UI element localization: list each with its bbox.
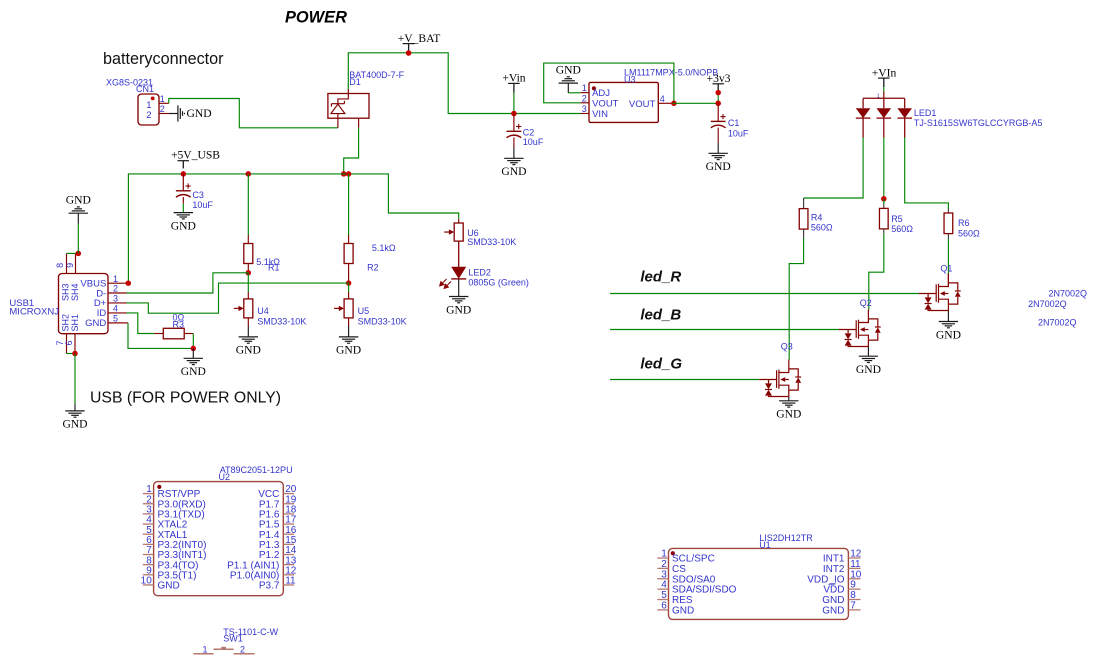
pin 4 SDA/SDI/SDO of U1 xyxy=(657,588,668,590)
svg-text:VDD_IO: VDD_IO xyxy=(807,574,844,585)
ground GND below Q2 xyxy=(867,347,869,356)
wire R5 to Q2 drain xyxy=(883,229,885,234)
pin anode stub of D1 xyxy=(337,118,339,128)
svg-text:11: 11 xyxy=(850,559,861,570)
switch contact of SW1 xyxy=(214,648,234,650)
ground GND below C1 xyxy=(717,128,719,143)
pin 2 D- of USB1 xyxy=(108,292,127,294)
svg-text:P3.7: P3.7 xyxy=(259,581,280,592)
svg-text:10uF: 10uF xyxy=(523,137,544,147)
svg-text:3: 3 xyxy=(582,104,587,114)
pin 6 GND of U1 xyxy=(657,609,668,611)
svg-text:R1: R1 xyxy=(268,263,280,273)
accelerometer U1 LIS2DH12TR xyxy=(669,548,849,619)
svg-text:R2: R2 xyxy=(367,263,379,273)
pin 5 XTAL1 of U2 xyxy=(143,533,154,535)
svg-text:10: 10 xyxy=(141,576,153,587)
junction R3/GND xyxy=(191,346,197,352)
svg-text:9: 9 xyxy=(65,263,75,268)
svg-text:batteryconnector: batteryconnector xyxy=(103,50,224,68)
ground GND below U5 xyxy=(348,318,350,326)
wire rail to R1 xyxy=(247,174,249,235)
svg-text:R6: R6 xyxy=(958,218,970,228)
wire node to U4 xyxy=(247,273,249,292)
svg-text:SW1: SW1 xyxy=(223,634,243,644)
pin 3 SDO/SA0 of U1 xyxy=(657,578,668,580)
pin 9 P3.5(T1) of U2 xyxy=(143,574,154,576)
wire led_B to Q2 gate xyxy=(610,329,839,331)
pin 4 VOUT of U3 xyxy=(658,102,672,104)
ground GND below U4 xyxy=(247,318,249,326)
svg-text:4: 4 xyxy=(661,580,667,591)
svg-text:INT1: INT1 xyxy=(823,554,845,565)
svg-text:SCL/SPC: SCL/SPC xyxy=(672,554,715,565)
wire rail to R2 xyxy=(348,174,350,235)
svg-text:led_G: led_G xyxy=(640,355,682,372)
svg-text:2: 2 xyxy=(113,284,118,294)
pin 4 XTAL2 of U2 xyxy=(143,523,154,525)
junction node D- / R1 / U4 xyxy=(246,270,252,276)
pin 15 P1.3 of U2 xyxy=(283,543,294,545)
ground GND below R3 xyxy=(192,348,194,358)
svg-text:2: 2 xyxy=(582,93,587,103)
pin 20 VCC of U2 xyxy=(283,493,294,495)
svg-text:GND: GND xyxy=(181,365,206,378)
svg-text:11: 11 xyxy=(285,576,296,587)
pin 2 VOUT of U3 xyxy=(581,102,589,104)
svg-text:5: 5 xyxy=(661,590,667,601)
wire led_G to Q3 gate xyxy=(610,379,759,381)
ground GND below Q1 xyxy=(947,311,949,322)
svg-text:10: 10 xyxy=(850,569,862,580)
svg-text:560Ω: 560Ω xyxy=(891,224,913,234)
svg-text:GND: GND xyxy=(776,408,801,421)
svg-text:SH3: SH3 xyxy=(60,284,70,302)
pin 11 P3.7 of U2 xyxy=(283,584,294,586)
junction node D+ / R2 / U5 xyxy=(346,280,352,286)
svg-text:2: 2 xyxy=(146,110,151,121)
pin 8 P3.4(TO) of U2 xyxy=(143,564,154,566)
svg-text:3: 3 xyxy=(661,569,667,580)
pin 1 VBUS of USB1 xyxy=(108,282,127,284)
pin top cathode stub of D1 xyxy=(347,89,349,94)
svg-text:2: 2 xyxy=(661,559,667,570)
LED LED2 0805G xyxy=(458,241,460,267)
svg-text:7: 7 xyxy=(850,601,856,612)
resistor R4 560 xyxy=(803,198,805,209)
wire VOUT to +3v3 xyxy=(672,102,718,104)
resistor R2 5.1k xyxy=(348,235,350,244)
pin 2 P3.0(RXD) of U2 xyxy=(143,503,154,505)
svg-text:VIN: VIN xyxy=(592,109,608,120)
pin 1 of SW1 xyxy=(194,653,214,655)
pin 18 P1.6 of U2 xyxy=(283,513,294,515)
pin SH3/SH4 shield top of USB1 xyxy=(66,253,68,273)
svg-text:Q2: Q2 xyxy=(860,298,872,308)
pin 4 ID of USB1 xyxy=(108,312,127,314)
pin 3 D+ of USB1 xyxy=(108,302,127,304)
pin 3 VIN of U3 xyxy=(581,113,589,115)
pin 9 VDD of U1 xyxy=(848,588,860,590)
svg-text:U1: U1 xyxy=(759,540,771,550)
svg-text:12: 12 xyxy=(850,549,862,560)
TVS U4 SMD33-10K xyxy=(244,299,253,318)
svg-text:2: 2 xyxy=(160,104,165,114)
transistor Q3 2N7002Q xyxy=(759,360,801,397)
svg-text:GND: GND xyxy=(822,595,844,606)
wire R4 to Q3 drain xyxy=(803,229,805,238)
pin 1 of CN1 xyxy=(159,102,169,104)
svg-text:LED1: LED1 xyxy=(914,108,937,118)
svg-text:GND: GND xyxy=(158,581,180,592)
svg-text:C1: C1 xyxy=(728,118,740,128)
pin 7 GND of U1 xyxy=(848,609,860,611)
svg-text:+3v3: +3v3 xyxy=(707,72,731,85)
resistor R6 560 xyxy=(947,209,949,214)
wire +V_BAT rail from D1 to VIN xyxy=(348,53,580,114)
svg-text:5.1kΩ: 5.1kΩ xyxy=(372,243,396,253)
power symbol +V_BAT xyxy=(408,44,410,53)
svg-text:GND: GND xyxy=(66,194,91,207)
svg-text:3: 3 xyxy=(113,294,118,304)
wire LED1 left to R4 xyxy=(804,138,864,199)
wire R6 to Q1 drain xyxy=(947,234,949,239)
svg-text:SMD33-10K: SMD33-10K xyxy=(257,317,306,327)
ground GND at CN1 pin 2 (rotated) xyxy=(169,113,178,115)
capacitor C3 10uF xyxy=(182,174,184,191)
svg-text:CS: CS xyxy=(672,564,686,575)
svg-text:MICROXNJ: MICROXNJ xyxy=(9,307,59,318)
svg-text:led_B: led_B xyxy=(640,306,681,323)
svg-text:GND: GND xyxy=(85,318,106,329)
connector CN1 XG8S-0231 xyxy=(138,94,159,125)
svg-text:C2: C2 xyxy=(523,127,535,137)
pin 2 of SW1 xyxy=(234,653,255,655)
transistor Q1 2N7002Q xyxy=(947,274,949,287)
svg-text:VDD: VDD xyxy=(823,585,844,596)
connector USB1 MICROXNJ xyxy=(59,274,109,334)
junction rail at C3 xyxy=(181,171,187,177)
svg-text:RES: RES xyxy=(672,595,693,606)
pin 11 INT2 of U1 xyxy=(848,567,860,569)
svg-text:U5: U5 xyxy=(358,306,370,316)
svg-text:1: 1 xyxy=(160,94,165,104)
pin 1 RST/VPP of U2 xyxy=(143,493,154,495)
svg-text:9: 9 xyxy=(850,580,856,591)
svg-text:USB (FOR POWER ONLY): USB (FOR POWER ONLY) xyxy=(90,390,281,407)
svg-text:INT2: INT2 xyxy=(823,564,845,575)
svg-text:5: 5 xyxy=(113,314,118,324)
resistor R5 560 xyxy=(883,199,885,204)
power symbol +VIn xyxy=(883,78,885,87)
wire D1 output down to +5V_USB rail xyxy=(344,128,359,174)
svg-text:GND: GND xyxy=(336,344,361,357)
pin 3 P3.1(TXD) of U2 xyxy=(143,513,154,515)
svg-text:R3: R3 xyxy=(173,319,185,329)
svg-text:SH2: SH2 xyxy=(60,314,70,332)
pin 14 P1.2 of U2 xyxy=(283,554,294,556)
regulator U3 LM1117MPX-5.0/NOPB xyxy=(589,82,658,122)
wire +5V_USB rail xyxy=(128,174,458,283)
junction +Vin node xyxy=(511,111,517,117)
svg-text:4: 4 xyxy=(660,94,665,104)
svg-text:D1: D1 xyxy=(349,77,361,87)
pin 2 CS of U1 xyxy=(657,567,668,569)
svg-text:1: 1 xyxy=(661,549,667,560)
svg-text:8: 8 xyxy=(850,590,856,601)
svg-text:SMD33-10K: SMD33-10K xyxy=(467,237,516,247)
svg-text:AT89C2051-12PU: AT89C2051-12PU xyxy=(220,465,293,475)
wire ADJ feedback loop to VOUT xyxy=(544,63,674,103)
svg-text:SMD33-10K: SMD33-10K xyxy=(358,317,407,327)
svg-text:2N7002Q: 2N7002Q xyxy=(1028,299,1067,309)
junction VOUT node xyxy=(671,101,677,107)
wire LED1 right to R6 xyxy=(905,138,949,209)
svg-text:1: 1 xyxy=(202,644,207,654)
resistor R3 0 ohm xyxy=(154,333,163,335)
svg-text:2N7002Q: 2N7002Q xyxy=(1038,317,1077,327)
pin 13 P1.1 (AIN1) of U2 xyxy=(283,564,294,566)
TVS U5 SMD33-10K xyxy=(344,299,353,318)
pin 6 P3.2(INT0) of U2 xyxy=(143,543,154,545)
pin 16 P1.4 of U2 xyxy=(283,533,294,535)
pin 17 P1.5 of U2 xyxy=(283,523,294,525)
svg-text:GND: GND xyxy=(236,344,261,357)
capacitor C2 10uF xyxy=(513,114,515,132)
junction rail at R1 xyxy=(246,171,252,177)
junction +V_BAT xyxy=(406,50,412,56)
power symbol +5V_USB xyxy=(182,161,184,169)
svg-text:VOUT: VOUT xyxy=(629,99,656,110)
svg-text:10uF: 10uF xyxy=(728,129,749,139)
pin 19 P1.7 of U2 xyxy=(283,503,294,505)
svg-text:GND: GND xyxy=(856,363,881,376)
svg-text:POWER: POWER xyxy=(285,8,347,26)
svg-text:SDO/SA0: SDO/SA0 xyxy=(672,574,716,585)
svg-text:U4: U4 xyxy=(257,306,269,316)
wire D- to R1/U4 node xyxy=(127,273,249,293)
svg-text:U3: U3 xyxy=(624,74,636,84)
MCU U2 AT89C2051-12PU xyxy=(154,482,284,596)
wire ID to R3 xyxy=(127,313,155,334)
ground GND below USB1 xyxy=(74,404,76,411)
junction R5 top xyxy=(881,196,887,202)
svg-text:10uF: 10uF xyxy=(192,200,213,210)
svg-text:VOUT: VOUT xyxy=(592,98,619,109)
junction D1 branch on rail xyxy=(341,171,347,177)
svg-text:R5: R5 xyxy=(891,214,903,224)
pin 7 P3.3(INT1) of U2 xyxy=(143,554,154,556)
svg-text:6: 6 xyxy=(64,340,74,345)
pin 5 GND of USB1 xyxy=(108,322,127,324)
svg-text:8: 8 xyxy=(55,263,65,268)
transistor Q2 2N7002Q xyxy=(839,310,881,347)
ground GND below C2 xyxy=(513,138,515,148)
wire led_R to Q1 gate xyxy=(610,293,919,295)
pin SH2/SH1 shield bottom of USB1 xyxy=(66,334,68,354)
pin 10 GND of U2 xyxy=(143,584,154,586)
svg-text:GND: GND xyxy=(822,606,844,617)
svg-text:led_R: led_R xyxy=(640,269,681,286)
power symbol +Vin xyxy=(513,83,515,92)
junction rail at R2 xyxy=(346,171,352,177)
svg-text:1: 1 xyxy=(877,93,880,99)
svg-text:GND: GND xyxy=(62,418,87,431)
svg-text:GND: GND xyxy=(446,303,471,316)
capacitor C1 10uF xyxy=(717,103,719,121)
pin 8 GND of U1 xyxy=(848,599,860,601)
pin 2 of CN1 xyxy=(159,113,169,115)
ground shield GND above USB1 (inverted) xyxy=(67,252,79,254)
svg-text:U2: U2 xyxy=(219,472,231,482)
svg-text:1: 1 xyxy=(113,274,118,284)
pin 10 VDD_IO of U1 xyxy=(848,578,860,580)
wire LED1 middle to R5 xyxy=(883,138,885,199)
svg-text:GND: GND xyxy=(706,160,731,173)
svg-text:560Ω: 560Ω xyxy=(958,229,980,239)
svg-text:GND: GND xyxy=(501,165,526,178)
wire shield bottom to GND xyxy=(67,353,76,355)
svg-text:+V_BAT: +V_BAT xyxy=(398,32,441,45)
ground GND below LED2 xyxy=(458,279,460,297)
pin 1 ADJ of U3 xyxy=(581,92,589,94)
svg-text:TJ-S1615SW6TGLCCYRGB-A5: TJ-S1615SW6TGLCCYRGB-A5 xyxy=(914,118,1043,128)
svg-text:0805G (Green): 0805G (Green) xyxy=(468,278,529,288)
svg-text:CN1: CN1 xyxy=(136,84,154,94)
pin 12 INT1 of U1 xyxy=(848,557,860,559)
pin 1 SCL/SPC of U1 xyxy=(657,557,668,559)
resistor R1 5.1k xyxy=(247,235,249,244)
svg-text:6: 6 xyxy=(661,601,667,612)
pin bottom-right stub of D1 xyxy=(358,118,360,128)
svg-text:4: 4 xyxy=(113,304,118,314)
pin 12 P1.0(AIN0) of U2 xyxy=(283,574,294,576)
diode D1 BAT400D-7-F xyxy=(328,94,369,119)
svg-text:+VIn: +VIn xyxy=(872,67,897,80)
svg-text:Q1: Q1 xyxy=(940,263,952,273)
svg-text:2N7002Q: 2N7002Q xyxy=(1049,289,1088,299)
svg-text:GND: GND xyxy=(936,328,961,341)
svg-text:1: 1 xyxy=(582,83,587,93)
svg-text:C3: C3 xyxy=(192,190,204,200)
svg-text:SH4: SH4 xyxy=(70,284,80,302)
wire CN1 pin1 to D1 anode xyxy=(169,99,338,128)
junction VBUS pin1 xyxy=(127,282,129,284)
svg-text:SDA/SDI/SDO: SDA/SDI/SDO xyxy=(672,585,737,596)
wire R3 to GND node xyxy=(192,334,194,349)
svg-text:Q3: Q3 xyxy=(781,342,793,352)
svg-text:+5V_USB: +5V_USB xyxy=(171,148,220,161)
svg-text:LM1117MPX-5.0/NOPB: LM1117MPX-5.0/NOPB xyxy=(624,68,718,78)
svg-text:560Ω: 560Ω xyxy=(811,223,833,233)
svg-text:2: 2 xyxy=(240,644,245,654)
ground GND at ADJ (inverted) xyxy=(568,92,580,94)
svg-text:GND: GND xyxy=(171,219,196,232)
wire pin5 GND to node xyxy=(108,322,128,324)
LED LED1 TJ-S1615 RGB (3 diodes) xyxy=(883,92,885,99)
wire D+ to R2/U5 node xyxy=(127,283,349,313)
junction +3v3 lower xyxy=(715,101,721,107)
svg-text:GND: GND xyxy=(556,64,581,77)
svg-text:GND: GND xyxy=(672,606,694,617)
ground GND below C3 xyxy=(182,197,184,204)
svg-text:LED2: LED2 xyxy=(468,268,491,278)
junction +3v3 upper xyxy=(715,90,721,96)
ground GND below Q3 xyxy=(788,397,790,401)
svg-text:GND: GND xyxy=(187,107,212,120)
svg-text:+Vin: +Vin xyxy=(502,71,525,84)
wire node to U5 xyxy=(348,283,350,292)
svg-text:SH1: SH1 xyxy=(70,314,80,332)
pin 5 RES of U1 xyxy=(657,599,668,601)
power symbol +3v3 xyxy=(717,84,719,93)
TVS U6 SMD33-10K xyxy=(458,219,460,223)
svg-text:R4: R4 xyxy=(811,212,823,222)
